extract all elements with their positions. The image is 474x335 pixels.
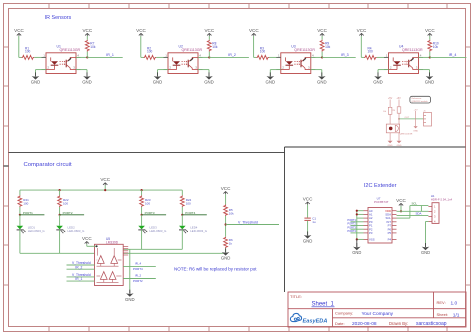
LED2 LED-0603_G [56, 226, 63, 230]
svg-text:VCC: VCC [425, 28, 435, 33]
svg-text:Your Company: Your Company [362, 311, 394, 317]
svg-text:10k: 10k [325, 45, 331, 49]
section divider vertical [284, 147, 286, 292]
wire [389, 133, 391, 141]
wire [141, 190, 143, 195]
wire stub [420, 206, 422, 212]
svg-text:IR_1: IR_1 [106, 53, 114, 57]
svg-text:VSS: VSS [369, 238, 375, 242]
node VDD junction [400, 210, 402, 212]
wire top rail [20, 189, 182, 191]
svg-text:Company:: Company: [335, 311, 353, 316]
svg-text:IR_2: IR_2 [135, 274, 141, 278]
svg-text:EasyEDA: EasyEDA [303, 318, 328, 324]
svg-text:IR_3: IR_3 [341, 53, 349, 57]
svg-text:IR_4: IR_4 [135, 262, 141, 266]
wire [419, 56, 430, 58]
resistor R10 pullup [428, 40, 432, 52]
wire [198, 56, 209, 58]
wire [377, 56, 389, 58]
svg-text:10k: 10k [212, 45, 218, 49]
ground U5 [129, 291, 131, 294]
wire [76, 56, 87, 58]
ground threshold [225, 248, 227, 252]
wire [225, 216, 227, 237]
opto-interrupter U2 QRE1113GR [168, 53, 198, 74]
wire [181, 215, 183, 226]
wire LED bottom rail inner [123, 248, 182, 250]
ground GND1a [35, 72, 37, 76]
pin P2/P6 [364, 228, 369, 230]
node PORT4 junction [181, 214, 183, 216]
wire VSS [357, 238, 364, 240]
svg-text:VCC: VCC [396, 198, 406, 203]
wire [59, 190, 61, 195]
svg-text:LED-0603_G: LED-0603_G [68, 229, 86, 233]
ground ref a [388, 141, 393, 143]
ground U7 [356, 239, 358, 247]
title block frame [288, 292, 466, 327]
svg-text:QRE1113GR: QRE1113GR [402, 48, 423, 52]
note box [410, 96, 431, 103]
connector ref J1 [424, 113, 432, 127]
wire [400, 206, 402, 211]
svg-text:100: 100 [23, 201, 28, 205]
svg-text:Date:: Date: [335, 321, 345, 326]
svg-text:TITLE:: TITLE: [290, 294, 302, 299]
svg-text:P4: P4 [388, 238, 392, 242]
wire [208, 52, 210, 58]
svg-text:+5V: +5V [396, 97, 401, 100]
resistor R5 [224, 205, 228, 217]
pin 3 [428, 216, 432, 218]
wire [181, 230, 183, 249]
wire [225, 248, 227, 252]
ground GND3b [321, 72, 323, 76]
svg-text:GND: GND [31, 80, 41, 85]
svg-text:PORT4: PORT4 [185, 211, 195, 215]
wire [429, 36, 431, 40]
connector H1 HDR-F-2.54_1x4 [432, 203, 439, 224]
svg-text:QRE1113GR: QRE1113GR [182, 48, 203, 52]
wire [86, 36, 88, 40]
opto-interrupter U4 QRE1113GR [389, 53, 419, 74]
wire [322, 56, 356, 58]
svg-text:Comparator circuit: Comparator circuit [24, 162, 72, 168]
resistor R9 pullup [320, 40, 324, 52]
svg-text:PORT3: PORT3 [347, 225, 356, 229]
svg-text:GND: GND [82, 80, 92, 85]
wire [86, 244, 88, 246]
node PORT1 junction [19, 214, 21, 216]
wire [87, 56, 122, 58]
svg-text:VCC: VCC [82, 236, 92, 241]
svg-text:VCC: VCC [249, 28, 259, 33]
wire cathode to ground [158, 69, 169, 71]
svg-text:I2C Extender: I2C Extender [364, 183, 397, 189]
resistor R8 pullup [207, 40, 211, 52]
svg-text:GND: GND [425, 80, 435, 85]
net label PORT4 stub [182, 214, 207, 216]
resistor R4 [364, 55, 377, 59]
node out junction [398, 118, 400, 120]
svg-text:GND: GND [373, 80, 383, 85]
svg-text:GND: GND [303, 239, 313, 244]
wire [59, 230, 61, 253]
wire [104, 185, 106, 190]
resistor R22 [58, 195, 62, 207]
pin P3/P5 [364, 232, 369, 234]
svg-text:GND: GND [125, 297, 135, 302]
svg-text:PORT4: PORT4 [133, 267, 143, 271]
svg-text:Reference:: Reference: [412, 97, 423, 100]
wire cathode to ground [378, 69, 389, 71]
wire [181, 190, 183, 195]
svg-text:IR_1: IR_1 [75, 277, 82, 281]
svg-text:IR_2: IR_2 [75, 265, 82, 269]
node U5 vcc pin [96, 245, 98, 247]
node junction IR_4 [429, 56, 431, 58]
resistor R2 [144, 55, 157, 59]
ground GND2a [157, 72, 159, 76]
ground ref b [397, 141, 402, 143]
wire out [399, 118, 424, 120]
wire [67, 264, 95, 266]
svg-text:LED-0603_G: LED-0603_G [190, 229, 208, 233]
sensor module box [386, 124, 399, 133]
wire [67, 280, 95, 282]
net label PORT1 stub [20, 214, 45, 216]
wire [129, 249, 131, 290]
svg-text:PORT2: PORT2 [63, 211, 73, 215]
node PORT2 junction [59, 214, 61, 216]
svg-text:100: 100 [186, 201, 191, 205]
svg-text:GND: GND [397, 145, 402, 147]
svg-text:Drawn By:: Drawn By: [389, 321, 408, 326]
wire [19, 190, 21, 195]
wire [181, 207, 183, 215]
wire [59, 215, 61, 226]
wire [67, 268, 95, 270]
svg-text:PORT4: PORT4 [347, 229, 356, 233]
wire [311, 56, 322, 58]
svg-text:IR_2: IR_2 [228, 53, 236, 57]
section divider I2C top [285, 146, 466, 148]
svg-text:IR Sensors: IR Sensors [45, 15, 72, 21]
wire [209, 56, 249, 58]
wire emitter to ground [198, 69, 209, 71]
ground GND1b [86, 72, 88, 76]
wire [141, 215, 143, 226]
svg-text:VCC: VCC [221, 186, 231, 191]
svg-text:VCC: VCC [317, 28, 327, 33]
resistor R6 [224, 237, 228, 249]
wire [351, 221, 364, 223]
net label PORT2 stub [60, 214, 85, 216]
LED1 LED-0603_G [17, 226, 24, 230]
svg-text:QRE1113GR: QRE1113GR [60, 48, 81, 52]
resistor ref R-b [397, 107, 401, 113]
pin A1/SDA [364, 213, 369, 215]
pin 1 [428, 205, 432, 207]
node junction IR_2 [208, 56, 210, 58]
svg-text:1k: 1k [229, 242, 233, 246]
svg-text:GND: GND [421, 250, 430, 255]
svg-text:100: 100 [368, 50, 374, 54]
svg-text:QRE1113GR: QRE1113GR [400, 134, 413, 136]
wire emitter to ground [76, 69, 87, 71]
wire [351, 232, 364, 234]
wire [67, 276, 95, 278]
wire A0-A2 to gnd bus [357, 210, 364, 212]
wire [19, 215, 21, 226]
svg-text:1/1: 1/1 [453, 312, 460, 318]
wire SCL route [397, 217, 410, 219]
svg-text:10k: 10k [90, 45, 96, 49]
pin P1/P7 [364, 225, 369, 227]
ground GND2b [208, 72, 210, 76]
svg-text:Sheet:: Sheet: [437, 312, 449, 317]
wire SDA [397, 214, 429, 216]
wire V_Threshold [226, 224, 279, 226]
IC U7 PCF8574T [368, 208, 392, 244]
pin A0/VDD [364, 210, 369, 212]
svg-text:sarcasticsoap: sarcasticsoap [416, 321, 447, 327]
svg-text:SCL: SCL [412, 202, 418, 206]
opto-interrupter U3 QRE1113GR [281, 53, 311, 74]
LED4 LED-0603_G [179, 226, 186, 230]
svg-text:LED-0603_G: LED-0603_G [150, 229, 168, 233]
svg-text:PORT2: PORT2 [133, 279, 143, 283]
svg-text:P5: P5 [388, 231, 392, 235]
pin 2 [428, 210, 432, 212]
resistor R7 pullup [85, 40, 89, 52]
wire [140, 36, 142, 57]
svg-text:1u: 1u [312, 220, 316, 224]
pins U5 top right [123, 246, 128, 248]
node threshold junction [225, 223, 227, 225]
op-amp U5 LM339D [95, 244, 124, 285]
svg-text:LED-0603_G: LED-0603_G [28, 229, 46, 233]
ground GND3a [269, 72, 271, 76]
wire [19, 230, 21, 253]
capacitor C1 [304, 217, 310, 219]
ground C1 [307, 231, 309, 235]
svg-text:P3: P3 [369, 231, 373, 235]
svg-text:2020-08-08: 2020-08-08 [352, 321, 377, 327]
opto-interrupter U1 QRE1113GR [46, 53, 76, 74]
svg-text:VCC: VCC [303, 196, 313, 201]
svg-text:VCC: VCC [357, 28, 367, 33]
node rail junctions [59, 189, 61, 191]
ground connector [425, 243, 427, 247]
wire LED bottom rail outer [20, 252, 95, 254]
svg-text:VCC: VCC [14, 28, 24, 33]
svg-text:PORT1: PORT1 [347, 218, 356, 222]
wire [86, 52, 88, 58]
svg-text:V_Threshold: V_Threshold [238, 220, 258, 224]
wire VDD [397, 210, 429, 212]
svg-text:10k: 10k [383, 111, 386, 113]
svg-text:10k: 10k [433, 45, 439, 49]
svg-text:100: 100 [147, 50, 153, 54]
wire [156, 56, 168, 58]
wire [269, 56, 281, 58]
svg-text:10k: 10k [229, 211, 234, 215]
wire [307, 205, 309, 218]
wire column 1 [389, 100, 391, 125]
svg-text:PORT1: PORT1 [23, 211, 33, 215]
wire [59, 207, 61, 215]
svg-text:LM339D: LM339D [106, 241, 119, 245]
wire [307, 221, 309, 236]
pin P0/INT [364, 221, 369, 223]
svg-text:VCC: VCC [82, 28, 92, 33]
svg-text:100: 100 [63, 201, 68, 205]
svg-text:REV:: REV: [437, 300, 446, 305]
svg-text:IR_4: IR_4 [449, 53, 457, 57]
svg-text:+5V: +5V [388, 97, 393, 100]
ground GND4b [429, 72, 431, 76]
wire [141, 230, 143, 249]
svg-text:GND: GND [266, 80, 276, 85]
svg-text:GND: GND [221, 256, 231, 261]
svg-text:GND: GND [204, 80, 214, 85]
svg-text:PCF8574T: PCF8574T [374, 200, 389, 204]
node junction IR_1 [86, 56, 88, 58]
svg-text:GND: GND [153, 80, 163, 85]
resistor R23 [140, 195, 144, 207]
wire cathode to ground [36, 69, 47, 71]
svg-text:GND: GND [413, 131, 418, 133]
node PORT3 junction [141, 214, 143, 216]
wire [34, 56, 46, 58]
wire [321, 36, 323, 40]
net label PORT3 stub [142, 214, 167, 216]
resistor R21 [18, 195, 22, 207]
wire [225, 194, 227, 204]
svg-text:QRE1113 module: QRE1113 module [412, 101, 429, 103]
svg-text:100: 100 [25, 50, 31, 54]
wire [360, 36, 362, 57]
svg-text:1.0: 1.0 [451, 300, 458, 306]
svg-text:HDR-F-2.54_1x4: HDR-F-2.54_1x4 [431, 197, 453, 201]
wire emitter to ground [419, 69, 430, 71]
wire emitter to ground [311, 69, 322, 71]
wire [18, 36, 20, 57]
svg-text:PORT3: PORT3 [145, 211, 155, 215]
svg-text:VCC: VCC [136, 28, 146, 33]
svg-text:GND: GND [388, 145, 393, 147]
svg-text:VCC: VCC [100, 177, 110, 182]
resistor ref R-a [388, 107, 392, 114]
svg-text:VCC: VCC [204, 28, 214, 33]
pin A2/SCL [364, 217, 369, 219]
wire [123, 278, 156, 280]
svg-text:PORT2: PORT2 [347, 222, 356, 226]
wire [429, 52, 431, 58]
wire column 2 [398, 100, 400, 125]
resistor R24 [180, 195, 184, 207]
ground GND4a [377, 72, 379, 76]
wire [321, 52, 323, 58]
wire [351, 228, 364, 230]
wire connector gnd [426, 221, 429, 223]
svg-text:SDA: SDA [416, 212, 422, 216]
EasyEDA logo [290, 313, 301, 321]
wire [430, 56, 467, 58]
svg-text:100: 100 [145, 201, 150, 205]
wire [351, 225, 364, 227]
svg-text:NOTE: R6 will be replaced by r: NOTE: R6 will be replaced by resistor po… [174, 266, 257, 271]
section divider comparator top [9, 151, 285, 153]
wire cathode to ground [270, 69, 281, 71]
svg-text:100: 100 [260, 50, 266, 54]
wire [253, 36, 255, 57]
wire [123, 265, 156, 267]
node junction IR_3 [321, 56, 323, 58]
pin 4 [428, 221, 432, 223]
svg-text:GND: GND [317, 80, 327, 85]
pin VSS/P4 [364, 238, 369, 240]
resistor R3 [256, 55, 269, 59]
svg-text:QRE1113GR: QRE1113GR [294, 48, 315, 52]
wire [141, 207, 143, 215]
resistor R1 [22, 55, 35, 59]
wire [19, 207, 21, 215]
LED3 LED-0603_G [138, 226, 145, 230]
wire [208, 36, 210, 40]
svg-text:GND: GND [352, 250, 361, 255]
svg-text:OUT: OUT [405, 117, 410, 119]
